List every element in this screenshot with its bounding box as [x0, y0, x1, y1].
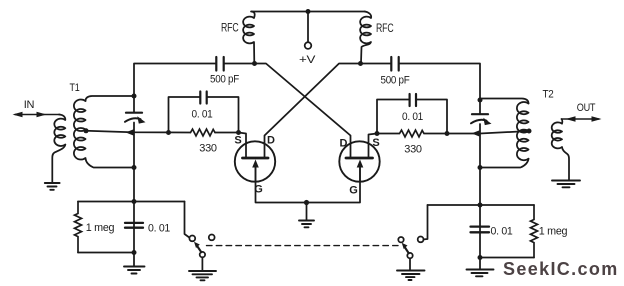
ground IN primary [45, 183, 60, 190]
wire left switch ground stem [201, 257, 203, 270]
variable capacitor right curved plate with arrow [471, 120, 487, 124]
IN arrowhead right [37, 112, 47, 118]
svg-text:D: D [340, 138, 348, 150]
switch right pivot circle [407, 253, 412, 258]
node 0.01 box right bottom-left [375, 131, 380, 136]
wire T1 primary bottom [52, 145, 65, 182]
node right combo bottom [478, 255, 483, 260]
svg-text:S: S [234, 135, 241, 147]
inductor T1 primary [54, 115, 65, 147]
Q1 channel bar [243, 157, 269, 160]
Q1 source lead [239, 133, 247, 158]
wire 500pF right run [361, 64, 481, 101]
node left combo bottom [132, 250, 137, 255]
svg-text:SeekIC.com: SeekIC.com [503, 259, 619, 279]
ground right combo [467, 270, 494, 277]
inductor T1 secondary [74, 99, 86, 159]
+V terminal circle [305, 42, 312, 49]
node T2 center tap [527, 129, 532, 134]
resistor 1 meg left [75, 202, 82, 253]
wire T2 primary bottom [480, 159, 529, 168]
wire right column main vertical [479, 100, 481, 258]
wire OUT arrow line [562, 118, 600, 120]
svg-text:+V: +V [299, 54, 316, 66]
wire gang dashed link [207, 245, 399, 247]
capacitor 0.01 box left [169, 97, 239, 133]
svg-text:1 meg: 1 meg [86, 222, 115, 234]
Q2 gate arrow [359, 166, 361, 182]
switch right contact circle wired [418, 237, 424, 243]
wire cross diagonal left-RFC to right-FET drain [255, 64, 351, 159]
svg-text:500 pF: 500 pF [210, 74, 240, 86]
OUT arrowhead left [566, 116, 576, 122]
capacitor 0.01 bottom left [125, 223, 143, 228]
node 0.01 box left bottom-right [236, 130, 241, 135]
transistor Q1 left FET circle [235, 141, 275, 181]
svg-text:T2: T2 [543, 89, 554, 101]
variable capacitor left junction barb [126, 129, 135, 136]
resistor 330 left [191, 129, 216, 136]
wire right combo bottom rail [480, 257, 534, 259]
switch right arm [404, 246, 409, 253]
svg-text:D: D [267, 135, 275, 147]
node 0.01 box left bottom-left [166, 130, 171, 135]
ground T2 secondary [552, 181, 580, 188]
wire T1 tap to source run [86, 131, 239, 133]
node T1 bottom wire junction [132, 165, 137, 170]
node T2 bottom wire junction [478, 165, 483, 170]
node right RFC bottom [358, 61, 363, 66]
wire 500pF left run [134, 64, 255, 97]
svg-text:0. 01: 0. 01 [148, 223, 170, 235]
Q2 channel bar [346, 157, 373, 160]
switch right contact circle open [398, 237, 403, 242]
wire right switch ground stem [409, 258, 411, 270]
svg-text:G: G [349, 185, 358, 197]
node T1 center tap [84, 128, 89, 133]
svg-text:0. 01: 0. 01 [192, 108, 213, 120]
variable capacitor right junction barb [472, 130, 481, 137]
wire right combo top rail [428, 204, 535, 206]
svg-text:S: S [372, 137, 379, 149]
svg-text:1 meg: 1 meg [539, 226, 568, 238]
svg-text:330: 330 [404, 143, 422, 155]
Q1 gate arrow [255, 166, 257, 182]
variable capacitor left top plate [126, 112, 142, 114]
ground left switch [189, 271, 216, 280]
wire cross diagonal right-RFC to left-FET drain [265, 64, 361, 159]
wire gate rail [256, 182, 361, 203]
inductor T2 primary [517, 102, 529, 160]
capacitor 500 pF left [216, 57, 223, 71]
wire +V stem [307, 12, 309, 43]
svg-text:RFC: RFC [221, 21, 239, 35]
wire T2 primary top [480, 99, 529, 104]
capacitor 0.01 bottom right [471, 227, 490, 233]
wire right tap run [447, 131, 529, 134]
OUT arrowhead right [592, 116, 602, 122]
wire right switch drop [424, 205, 428, 239]
wire T2 secondary bottom [562, 147, 569, 179]
switch left arm [197, 245, 202, 252]
wire left combo ground stem [133, 253, 135, 267]
variable capacitor left curved plate with arrow [125, 118, 141, 122]
svg-text:330: 330 [199, 143, 217, 155]
node top center junction [306, 9, 311, 14]
capacitor 500 pF right [391, 57, 398, 71]
wire right combo ground stem [479, 258, 481, 270]
svg-text:T1: T1 [70, 82, 80, 94]
resistor 330 right [377, 130, 447, 137]
wire IN arrow line [15, 114, 60, 116]
inductor RFC right [360, 12, 371, 64]
wire T1 secondary bottom [86, 159, 135, 168]
IN arrowhead left [13, 112, 23, 118]
svg-text:0. 01: 0. 01 [491, 226, 513, 238]
wire left column main vertical [133, 96, 135, 253]
node left combo top [132, 199, 137, 204]
switch left pivot circle [200, 252, 205, 257]
svg-text:500 pF: 500 pF [381, 75, 411, 87]
wire left combo top rail [78, 201, 185, 203]
wire gate ground stem [306, 203, 308, 221]
inductor RFC left [243, 12, 255, 64]
wire left switch drop [185, 202, 190, 238]
svg-text:0. 01: 0. 01 [402, 111, 423, 123]
wire left combo bottom rail [78, 252, 134, 254]
inductor T2 secondary [552, 119, 563, 148]
svg-text:RFC: RFC [376, 21, 394, 35]
ground left combo [124, 267, 145, 274]
node right combo top [478, 203, 483, 208]
ground gate center [299, 221, 314, 228]
ground right switch [397, 271, 425, 281]
Q2 source lead [369, 134, 378, 158]
node 0.01 box right bottom-right [445, 131, 450, 136]
variable capacitor right top plate [472, 113, 488, 115]
svg-text:OUT: OUT [577, 102, 596, 114]
node left 500pF corner junction [132, 94, 137, 99]
svg-text:IN: IN [24, 99, 35, 111]
capacitor 0.01 box right [377, 100, 447, 134]
node gate rail center [304, 200, 309, 205]
transistor Q2 right FET circle [339, 141, 379, 181]
node left RFC bottom [252, 61, 257, 66]
node right 500pF corner junction [478, 98, 483, 103]
wire top rail [251, 11, 365, 13]
switch left contact circle open [209, 235, 215, 241]
wire T1 secondary top [86, 96, 135, 101]
switch left contact circle wired [189, 236, 195, 242]
resistor 1 meg right [531, 205, 538, 258]
